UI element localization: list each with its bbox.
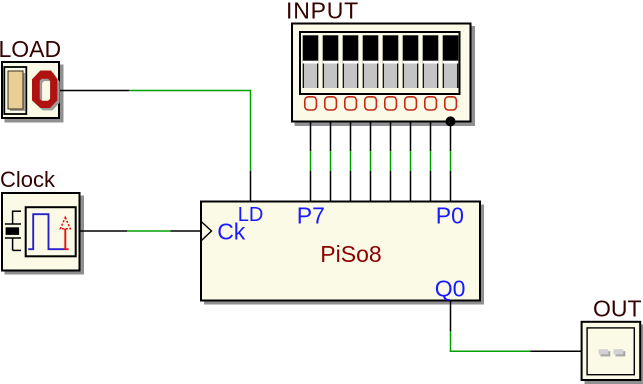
wire LOAD to LD (green vertical) [250, 90, 252, 171]
value label PiSo8 [320, 241, 381, 267]
wire Q0 to OUT (black stub from PiSo8) [450, 302, 452, 332]
wire INPUT bit0 to P0 [450, 122, 452, 201]
DIP switch INPUT: contact ring 4 [365, 97, 377, 110]
DIP switch INPUT: contact ring 2 [405, 97, 417, 110]
wire INPUT bit6 to P6 [330, 122, 332, 201]
wire INPUT bit4 to P4 [370, 122, 372, 201]
input switch LOAD: lever knob shadow [10, 73, 25, 111]
svg-text:Clock: Clock [0, 167, 56, 192]
svg-text:P0: P0 [436, 203, 464, 229]
DIP switch INPUT: contact ring 6 [325, 97, 337, 110]
output LED OUT: shadow [585, 325, 643, 384]
wire LOAD to LD (green horizontal) [129, 90, 251, 92]
DIP switch INPUT: switch 5 [343, 35, 359, 88]
wire Q0 to OUT (black stub into OUT) [530, 350, 581, 352]
input switch LOAD: lever housing [4, 67, 26, 114]
svg-text:OUT: OUT [593, 296, 642, 322]
DIP switch INPUT: contact ring 7 [305, 97, 317, 110]
DIP switch INPUT: switch 7 [303, 35, 319, 88]
clock generator: waveform inner box [26, 207, 76, 256]
svg-text:Q0: Q0 [435, 276, 466, 302]
svg-text:LOAD: LOAD [0, 36, 61, 62]
wire Clock to Ck (black stub from Clock) [81, 230, 128, 232]
wire Q0 to OUT (green horizontal) [450, 350, 531, 352]
DIP switch INPUT: switch 4 [363, 35, 379, 88]
shift register U1 PiSo8: shadow [204, 205, 484, 305]
DIP switch INPUT: inner frame [300, 32, 460, 94]
input switch LOAD: digit 0 [32, 71, 57, 109]
svg-text:PiSo8: PiSo8 [320, 241, 381, 267]
input switch LOAD: body [2, 62, 59, 118]
input switch LOAD: shadow [5, 65, 64, 123]
wire INPUT bit3 to P3 [390, 122, 392, 201]
label LOAD [0, 36, 61, 62]
clock generator: shadow [5, 196, 85, 275]
input switch LOAD: lever knob [8, 71, 23, 109]
shift register U1 PiSo8: body [201, 202, 480, 301]
DIP switch INPUT: switch 0 [443, 35, 459, 88]
label OUT [593, 296, 642, 322]
svg-text:INPUT: INPUT [286, 0, 359, 23]
DIP switch INPUT: switch 3 [383, 35, 399, 88]
DIP switch INPUT: switch 1 [423, 35, 439, 88]
svg-text:P7: P7 [297, 203, 325, 229]
DIP switch INPUT: shadow [295, 26, 476, 126]
clock generator: body [2, 193, 80, 271]
DIP switch INPUT: body [292, 24, 471, 122]
output LED OUT: segment dash right [614, 349, 626, 356]
wire Clock to Ck (green middle) [127, 230, 170, 232]
output LED OUT: inner frame [587, 328, 634, 375]
wire INPUT bit1 to P1 [430, 122, 432, 201]
wire Q0 to OUT (green vertical) [450, 331, 452, 352]
label Clock [0, 167, 56, 192]
wire LOAD to LD (black stub into PiSo8) [250, 171, 252, 201]
wire Clock to Ck (black stub into PiSo8) [170, 230, 200, 232]
clock generator: crystal symbol [5, 211, 21, 251]
wire INPUT bit5 to P5 [350, 122, 352, 201]
shift register U1 PiSo8: clock chevron on Ck pin [201, 222, 211, 241]
junction node on P0 wire [446, 116, 456, 126]
pin label Q0 [435, 276, 466, 302]
DIP switch INPUT: switch 6 [323, 35, 339, 88]
pin label LD [238, 204, 264, 226]
input switch LOAD: digit 0 shadow [34, 73, 59, 111]
clock generator: edge arrow (red) [60, 217, 70, 250]
svg-text:Ck: Ck [217, 218, 246, 244]
pin label P7 [297, 203, 325, 229]
label INPUT [286, 0, 359, 23]
pin label Ck [217, 218, 246, 244]
wire LOAD to LD (black stub from LOAD) [60, 90, 129, 92]
output LED OUT: body [582, 322, 641, 380]
output LED OUT: segment dash left [599, 349, 611, 356]
pin label P0 [436, 203, 464, 229]
DIP switch INPUT: switch 2 [403, 35, 419, 88]
wire INPUT bit7 to P7 [310, 122, 312, 201]
wire INPUT bit2 to P2 [410, 122, 412, 201]
clock generator: square wave (blue) [28, 214, 65, 249]
DIP switch INPUT: contact ring 3 [385, 97, 397, 110]
DIP switch INPUT: contact ring 0 [445, 97, 457, 110]
DIP switch INPUT: contact ring 5 [345, 97, 357, 110]
DIP switch INPUT: contact ring 1 [425, 97, 437, 110]
